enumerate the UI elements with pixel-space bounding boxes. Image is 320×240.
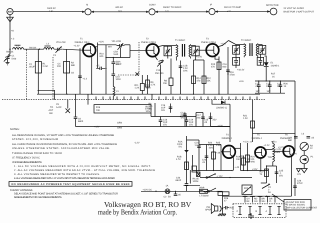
wire osc vertical 106 bbox=[105, 45, 112, 94]
resistor R30 spark filter bbox=[199, 186, 209, 197]
svg-text:1A: 1A bbox=[166, 185, 169, 188]
svg-text:ALL CAPACITANCE IN MICROMICROF: ALL CAPACITANCE IN MICROMICROFARADS, 50 … bbox=[12, 143, 117, 146]
capacitor C14 bbox=[181, 112, 187, 127]
svg-text:TO: TO bbox=[50, 106, 53, 109]
speaker LS bbox=[205, 204, 221, 214]
ground X left bbox=[56, 100, 70, 113]
node ANT test point bbox=[7, 9, 13, 15]
svg-text:GN: GN bbox=[254, 200, 258, 203]
svg-text:A-OF: A-OF bbox=[56, 106, 62, 109]
svg-text:15K: 15K bbox=[207, 80, 212, 83]
svg-text:500W: 500W bbox=[203, 194, 210, 197]
terminal strip pins bbox=[243, 197, 278, 203]
svg-text:+0.6: +0.6 bbox=[239, 80, 244, 83]
svg-text:AMP COLLECTOR CURRENT: AMP COLLECTOR CURRENT bbox=[286, 206, 318, 209]
capacitor boxes IF2 lower row bbox=[233, 54, 264, 68]
svg-text:L2: L2 bbox=[47, 43, 50, 46]
capacitor C8 padder bbox=[112, 58, 121, 69]
svg-text:10%: 10% bbox=[183, 70, 188, 73]
wire T4 emitter down bbox=[234, 157, 240, 170]
wire bus y170.5 left bbox=[193, 155, 233, 171]
wire mid horizontal y116 bbox=[151, 116, 196, 117]
svg-text:4.7K: 4.7K bbox=[176, 158, 181, 161]
svg-text:2. ALL AC VOLTAGES MEASURED W: 2. ALL AC VOLTAGES MEASURED WITH AN AC V… bbox=[14, 169, 155, 172]
shield box oscillator (dashed) bbox=[118, 42, 139, 76]
wire audio feed right column bbox=[253, 81, 296, 133]
svg-text:YELLOW: YELLOW bbox=[112, 40, 122, 43]
svg-text:1.2K: 1.2K bbox=[135, 87, 140, 90]
capacitor C13 bypass bbox=[226, 47, 245, 94]
wire osc mid rail bbox=[106, 48, 130, 67]
transistor T1 label bbox=[75, 38, 91, 44]
diode arrow transistor symbol mid bbox=[212, 100, 230, 110]
wire mixer to converter test point bbox=[91, 11, 149, 13]
svg-text:WH: WH bbox=[108, 46, 112, 49]
svg-text:1. ALL DC VOLTAGES MEASURED W: 1. ALL DC VOLTAGES MEASURED WITH A 20,00… bbox=[14, 165, 151, 168]
svg-text:YELLOW: YELLOW bbox=[56, 41, 66, 44]
wire speaker to ground bbox=[222, 191, 223, 214]
capacitor C1 antenna trimmer bbox=[4, 49, 17, 61]
svg-text:7K: 7K bbox=[260, 173, 263, 176]
svg-text:ALL RESISTANCE IN OHMS, 1/2 WA: ALL RESISTANCE IN OHMS, 1/2 WATT AND ±10… bbox=[12, 134, 114, 137]
svg-text:+.71v: +.71v bbox=[271, 141, 278, 144]
capacitor C9 bbox=[112, 68, 122, 87]
wire ANT to mixer test point bbox=[13, 11, 84, 13]
svg-text:16V: 16V bbox=[161, 109, 166, 112]
svg-text:25V: 25V bbox=[279, 175, 284, 178]
capacitor C13 IF1 secondary box bbox=[192, 46, 199, 59]
svg-text:2N636-1 OR-5: 2N636-1 OR-5 bbox=[141, 41, 157, 44]
svg-text:+10.4V: +10.4V bbox=[237, 69, 245, 72]
IF transformer T1 can bbox=[158, 39, 195, 59]
wire ground bus y94 bbox=[37, 94, 260, 95]
capacitor C23 bbox=[202, 145, 208, 171]
svg-text:1600 KC: 1600 KC bbox=[47, 7, 56, 10]
svg-text:CONV: CONV bbox=[149, 4, 156, 7]
svg-text:68K: 68K bbox=[71, 64, 76, 67]
svg-text:+8: +8 bbox=[11, 30, 14, 33]
diode E1 detector bbox=[264, 56, 280, 68]
svg-text:VIBR: VIBR bbox=[199, 186, 205, 189]
svg-text:12V: 12V bbox=[297, 173, 302, 176]
svg-text:10K: 10K bbox=[236, 158, 241, 161]
svg-text:L6: L6 bbox=[302, 133, 305, 136]
IF transformer T2 can bbox=[229, 39, 263, 57]
svg-text:16V: 16V bbox=[267, 90, 272, 93]
svg-text:4.7K: 4.7K bbox=[151, 84, 156, 87]
capacitor C15b bbox=[204, 113, 223, 128]
wire C5 to T2 base bbox=[130, 49, 146, 51]
svg-text:R28: R28 bbox=[230, 207, 235, 210]
svg-text:M: M bbox=[86, 4, 88, 7]
wire +12V rail y171 bbox=[241, 168, 269, 171]
svg-text:+1.4V: +1.4V bbox=[196, 56, 203, 59]
svg-text:15V: 15V bbox=[189, 124, 194, 127]
wire vertical 180 IF bbox=[177, 59, 189, 95]
svg-text:+.45: +.45 bbox=[235, 166, 240, 169]
svg-text:5-80: 5-80 bbox=[12, 58, 17, 61]
svg-text:E1: E1 bbox=[271, 62, 275, 65]
svg-text:T5: T5 bbox=[257, 134, 260, 137]
svg-text:P1: P1 bbox=[311, 156, 315, 159]
svg-text:262 KC TO AMP: 262 KC TO AMP bbox=[224, 6, 241, 9]
inductor L1 antenna coil bbox=[13, 44, 24, 49]
svg-text:NO UNGROUNDED AC POWERED TEST: NO UNGROUNDED AC POWERED TEST EQUIPMENT … bbox=[12, 183, 130, 186]
svg-text:260KC TO 262KC: 260KC TO 262KC bbox=[163, 6, 182, 9]
chassis dashed line with ticks bbox=[2, 94, 265, 100]
svg-text:10%: 10% bbox=[209, 147, 214, 150]
resistor R3 base bias box bbox=[57, 49, 76, 94]
svg-text:VOLTAGE MEASUREMENTS:: VOLTAGE MEASUREMENTS: bbox=[12, 161, 42, 164]
svg-text:220: 220 bbox=[57, 65, 62, 68]
wire IF1 secondary to T3 base bbox=[196, 50, 207, 60]
capacitor C21 driver input bbox=[195, 140, 201, 171]
wire T6 collector/emitter connections bbox=[292, 133, 295, 196]
svg-text:SW: SW bbox=[49, 112, 54, 115]
svg-text:4. ALL VOLTAGES MEASURED WITH: 4. ALL VOLTAGES MEASURED WITH -12 VOLTS … bbox=[14, 177, 115, 180]
capacitor C14 IF2 primary box bbox=[233, 45, 240, 55]
svg-text:1000: 1000 bbox=[116, 78, 122, 81]
capacitor C29 speaker bbox=[224, 197, 235, 210]
wire AVC rail y81 bbox=[255, 80, 295, 81]
wire converter to IF test point bbox=[155, 11, 209, 13]
svg-text:C1: C1 bbox=[12, 55, 16, 58]
svg-text:1K: 1K bbox=[284, 85, 287, 88]
svg-text:C3: C3 bbox=[53, 54, 57, 57]
wire driver top rail bbox=[199, 144, 221, 146]
svg-text:2.2M: 2.2M bbox=[43, 65, 48, 68]
svg-text:+12V DC: +12V DC bbox=[143, 188, 153, 191]
svg-text:L3: L3 bbox=[116, 90, 119, 93]
svg-text:UNLESS OTHERWISE STATED. 600=: UNLESS OTHERWISE STATED. 600=GUARANTEED … bbox=[12, 147, 110, 150]
resistor R13 mid bbox=[149, 103, 156, 117]
svg-text:B: B bbox=[256, 210, 258, 213]
svg-text:5-80: 5-80 bbox=[114, 53, 119, 56]
wire vertical 171 bbox=[163, 59, 173, 95]
wire C1 to ground bbox=[7, 59, 9, 62]
svg-text:BASE ELEMENTS FOR OHM MEASUREM: BASE ELEMENTS FOR OHM MEASUREMENTS. bbox=[14, 196, 62, 199]
svg-text:332P: 332P bbox=[116, 63, 122, 66]
node alignment label 600 KC / 262 bbox=[116, 6, 124, 13]
svg-text:T2: T2 bbox=[146, 38, 149, 41]
transistor T2 label bbox=[141, 38, 157, 44]
svg-text:NOTES:: NOTES: bbox=[10, 128, 20, 131]
transistor T5 label bbox=[243, 134, 263, 144]
wire audio feed from volume to driver bbox=[187, 136, 200, 184]
svg-text:C6: C6 bbox=[71, 72, 75, 75]
svg-text:+1.21: +1.21 bbox=[278, 146, 285, 149]
switch SW2 power bbox=[208, 188, 223, 192]
svg-text:2N255N-1: 2N255N-1 bbox=[252, 137, 263, 140]
resistor R12 bbox=[194, 60, 212, 94]
wire bottom bus y196 bbox=[218, 192, 292, 197]
svg-text:5%: 5% bbox=[181, 117, 184, 120]
svg-text:IF: IF bbox=[210, 4, 213, 7]
svg-text:1K: 1K bbox=[272, 76, 275, 79]
svg-text:ANT: ANT bbox=[8, 11, 13, 14]
inductor L3 oscillator coil bbox=[113, 87, 119, 100]
resistor R14 bbox=[192, 60, 202, 94]
svg-text:T2 262KC: T2 262KC bbox=[241, 39, 252, 42]
output lamp L6 circle bbox=[288, 133, 315, 151]
warning box bbox=[9, 182, 132, 187]
transistor T6 2N456A output bbox=[283, 146, 294, 157]
note box adjust R22 bbox=[248, 194, 318, 219]
svg-text:T1: T1 bbox=[80, 38, 83, 41]
capacitor C25 below bbox=[273, 166, 284, 183]
svg-text:.05: .05 bbox=[178, 194, 182, 197]
transistor T4 2N595N-1 audio driver bbox=[223, 146, 236, 159]
svg-text:+12V: +12V bbox=[292, 153, 298, 156]
resistor R17 label bbox=[266, 67, 276, 81]
node detector test point bbox=[266, 4, 279, 15]
wire T3 collector to IF2 bbox=[218, 40, 228, 46]
svg-text:5%: 5% bbox=[179, 146, 182, 149]
resistor R9 column bbox=[146, 75, 156, 94]
svg-text:68UF: 68UF bbox=[176, 179, 182, 182]
transistor T2 2N636-1 converter bbox=[146, 44, 159, 57]
svg-text:C: C bbox=[237, 210, 239, 213]
svg-text:250-130: 250-130 bbox=[155, 72, 164, 75]
resistor R23 bbox=[208, 142, 216, 171]
svg-text:SW101: SW101 bbox=[29, 46, 37, 49]
svg-text:+12V: +12V bbox=[221, 43, 227, 46]
svg-text:4700: 4700 bbox=[230, 74, 236, 77]
resistor R1A bbox=[177, 141, 189, 153]
svg-text:ANT: ANT bbox=[49, 109, 54, 112]
notes header bbox=[10, 128, 155, 180]
svg-text:R16: R16 bbox=[96, 106, 101, 109]
svg-text:TUNING RANGE FROM 5400 TO 1600: TUNING RANGE FROM 5400 TO 16000 bbox=[12, 152, 63, 155]
capacitor C28 on power lead bbox=[174, 191, 182, 197]
wire T5 emitter down bbox=[260, 158, 262, 171]
transistor T6 label bbox=[271, 134, 291, 144]
pilot lamp P1 circle bbox=[292, 151, 315, 169]
svg-text:16V: 16V bbox=[256, 90, 261, 93]
node alignment label 262 KC TO AMP bbox=[224, 6, 241, 13]
svg-text:C5: C5 bbox=[56, 103, 60, 106]
svg-text:T4: T4 bbox=[226, 134, 229, 137]
node mixer test point M bbox=[82, 4, 94, 15]
resistor R25 base bbox=[216, 142, 223, 171]
svg-text:+1.2V: +1.2V bbox=[264, 144, 271, 147]
svg-text:2N595N-1: 2N595N-1 bbox=[222, 137, 233, 140]
wire T6 base from L5 bbox=[273, 146, 286, 151]
svg-text:75 MA NO SIGNAL: 75 MA NO SIGNAL bbox=[286, 204, 306, 207]
svg-text:+ 12V: + 12V bbox=[217, 175, 224, 178]
svg-text:STATED. K=1,000, M=MEGOHM: STATED. K=1,000, M=MEGOHM bbox=[12, 138, 58, 141]
svg-text:+1.2: +1.2 bbox=[83, 78, 88, 81]
enclosure corner lines bbox=[38, 90, 55, 115]
resistor R22B below T5 bbox=[241, 155, 252, 171]
svg-text:+.2: +.2 bbox=[11, 38, 15, 41]
fuse L7 on power lead bbox=[164, 185, 172, 199]
caption title bbox=[98, 200, 192, 217]
svg-text:10K: 10K bbox=[96, 109, 101, 112]
capacitor C20 bbox=[176, 170, 191, 191]
wire T4 collector bbox=[235, 143, 241, 171]
resistor R2 / capacitor C4 bbox=[71, 48, 88, 94]
svg-text:DUMMY ANTENNA:: DUMMY ANTENNA: bbox=[10, 189, 33, 192]
svg-text:A: A bbox=[266, 210, 268, 213]
wire main power lead y191 bbox=[141, 188, 223, 192]
resistor R27 below bbox=[260, 165, 273, 183]
node IF test point bbox=[206, 4, 218, 15]
svg-text:+12V: +12V bbox=[252, 168, 258, 171]
capacitor C27 bbox=[184, 185, 201, 187]
wire mid horizontal y126.5 bbox=[76, 126, 231, 128]
wire osc top rail bbox=[98, 45, 131, 58]
transistor T3 label bbox=[201, 38, 217, 44]
svg-text:47UF: 47UF bbox=[297, 182, 303, 185]
capacitor C5 osc trimmer bbox=[112, 40, 125, 56]
svg-text:15K: 15K bbox=[163, 82, 168, 85]
capacitor C16 coupling mid bbox=[134, 117, 168, 145]
ground antenna trimmer bbox=[6, 63, 10, 65]
svg-text:BASE FOR 1 WATT OUTPUT: BASE FOR 1 WATT OUTPUT bbox=[284, 11, 315, 14]
svg-text:GRN: GRN bbox=[117, 127, 122, 130]
svg-text:.02: .02 bbox=[311, 137, 315, 140]
svg-text:I.F. FREQUENCY 262 KC: I.F. FREQUENCY 262 KC bbox=[12, 156, 40, 159]
svg-text:1N295-1: 1N295-1 bbox=[271, 65, 281, 68]
svg-text:3. ALL VOLTAGES MEASURED WITH: 3. ALL VOLTAGES MEASURED WITH RESPECT TO… bbox=[14, 173, 100, 176]
capacitor C16A avc filter bbox=[161, 104, 172, 113]
svg-text:SPKR: SPKR bbox=[205, 209, 212, 212]
capacitor C3 tuning trimmer bbox=[53, 41, 66, 57]
svg-text:100M: 100M bbox=[193, 180, 199, 183]
svg-text:4000: 4000 bbox=[146, 87, 152, 90]
svg-text:WW: WW bbox=[251, 161, 256, 164]
svg-text:R11: R11 bbox=[135, 84, 140, 87]
potentiometer R22 bias bbox=[242, 185, 252, 195]
node alignment label 260KC TO 262KC bbox=[163, 6, 182, 13]
wire T1 emitter down bbox=[91, 56, 93, 94]
wire T1 collector to +12V rail bbox=[95, 41, 104, 69]
transistor T3 2N636-1 IF amp bbox=[206, 44, 219, 57]
dummy antenna note bbox=[10, 189, 118, 199]
capacitor C10 emitter trimmer bbox=[155, 56, 164, 94]
svg-text:ADJUST R22 FOR: ADJUST R22 FOR bbox=[286, 201, 306, 204]
connector dashed box bbox=[233, 204, 286, 218]
svg-text:GRN: GRN bbox=[117, 122, 122, 125]
capacitor C17 AVC bbox=[255, 81, 261, 93]
svg-text:2.81: 2.81 bbox=[49, 10, 54, 13]
svg-text:BK: BK bbox=[247, 200, 251, 203]
ground arrow below P1 bbox=[297, 169, 308, 177]
svg-text:made by Bendix Aviation Corp.: made by Bendix Aviation Corp. bbox=[98, 208, 177, 217]
capacitor C19b mid bbox=[185, 117, 194, 127]
svg-text:15V: 15V bbox=[163, 124, 168, 127]
svg-text:T3: T3 bbox=[206, 38, 209, 41]
wire T5 collector to L5 bbox=[264, 144, 273, 150]
capacitor C7 coupling bbox=[96, 64, 105, 70]
inductor L2 RF coil bbox=[44, 43, 54, 50]
resistor R11 bbox=[135, 75, 152, 94]
resistor R21 mid right bbox=[243, 100, 255, 142]
node converter test point bbox=[146, 4, 158, 15]
capacitor C15 bbox=[196, 113, 205, 127]
svg-text:WH: WH bbox=[262, 200, 266, 203]
node output note text bbox=[284, 7, 315, 14]
capacitor C26 right column bbox=[293, 178, 303, 196]
switch SW1B bbox=[261, 183, 272, 194]
svg-text:DETECTOR: DETECTOR bbox=[266, 4, 279, 7]
wire IF to detector test point bbox=[215, 11, 270, 13]
svg-text:C2: C2 bbox=[164, 195, 168, 198]
svg-text:[2N595-1]: [2N595-1] bbox=[217, 107, 227, 110]
svg-text:+1.2V: +1.2V bbox=[74, 45, 81, 48]
wire L1 to L2 with label SW101 bbox=[24, 46, 44, 50]
svg-text:6800: 6800 bbox=[78, 120, 84, 123]
svg-text:T1 262KC: T1 262KC bbox=[175, 39, 186, 42]
svg-text:25V: 25V bbox=[213, 119, 218, 122]
svg-text:+12V: +12V bbox=[99, 41, 105, 44]
svg-text:+4.2v =0: +4.2v =0 bbox=[243, 141, 253, 144]
capacitor C15 IF2 secondary box bbox=[259, 45, 266, 54]
svg-text:T6: T6 bbox=[285, 134, 288, 137]
resistor R19 WW bbox=[236, 143, 256, 171]
svg-text:SW101: SW101 bbox=[6, 50, 14, 53]
svg-text:R17: R17 bbox=[271, 73, 276, 76]
node alignment label 1600 KC / 2.87 bbox=[47, 7, 56, 13]
capacitor C18 AVC electrolytic bbox=[266, 81, 272, 93]
transistor T4 label bbox=[222, 134, 233, 140]
potentiometer R16 volume bbox=[94, 105, 151, 113]
resistor R1B bbox=[176, 156, 189, 170]
wire AVC lower y93 bbox=[255, 92, 285, 94]
wire antenna lead-in bbox=[10, 26, 15, 49]
svg-text:+.48: +.48 bbox=[216, 152, 221, 155]
wire C3 to T1 base bbox=[62, 45, 83, 51]
svg-text:600 KC: 600 KC bbox=[116, 6, 124, 9]
svg-text:5A: 5A bbox=[268, 191, 271, 194]
svg-text:5A: 5A bbox=[168, 195, 171, 198]
svg-text:-1.2V: -1.2V bbox=[134, 142, 140, 145]
transistor T1 2N636-1 RF amp bbox=[83, 44, 96, 57]
svg-text:.05UF: .05UF bbox=[29, 66, 36, 69]
antenna symbol bbox=[7, 15, 14, 26]
transistor T5 2N255 output bbox=[255, 147, 266, 158]
wire rail y177.5 with switch SW1A bbox=[200, 174, 252, 179]
capacitor C12 IF1 primary box bbox=[164, 46, 171, 59]
svg-text:5%: 5% bbox=[149, 108, 152, 111]
chassis ground speaker bbox=[218, 214, 226, 216]
fuse box bottom-left bbox=[192, 166, 200, 183]
capacitor C2 input blocking bbox=[26, 49, 47, 94]
inductor L5 interstage choke bbox=[268, 141, 282, 166]
wire volume wiper down bbox=[88, 100, 151, 130]
wire vertical 230 mid bbox=[211, 104, 231, 142]
svg-text:1.2K: 1.2K bbox=[243, 117, 248, 120]
capacitor C19 AVC electrolytic bbox=[277, 81, 288, 93]
svg-text:T1B: T1B bbox=[268, 156, 273, 159]
wire junction antenna/L1 bbox=[6, 49, 14, 54]
shield dashed verticals tuner bbox=[26, 50, 53, 100]
resistor R15 T3 emitter bbox=[211, 56, 227, 94]
capacitor C6800 left bbox=[74, 94, 84, 126]
svg-text:24 VOLT AC AUDIO: 24 VOLT AC AUDIO bbox=[284, 7, 305, 10]
